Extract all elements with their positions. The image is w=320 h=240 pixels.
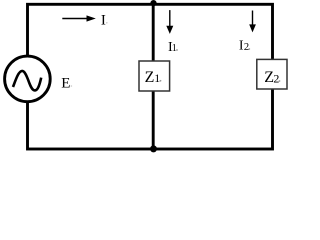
svg-text:I: I bbox=[101, 12, 106, 28]
svg-text:E: E bbox=[61, 76, 70, 92]
svg-text:1: 1 bbox=[154, 71, 160, 85]
svg-text:1: 1 bbox=[172, 43, 177, 54]
svg-text:2: 2 bbox=[244, 42, 249, 53]
svg-text:Z: Z bbox=[145, 69, 155, 86]
svg-text:2: 2 bbox=[273, 71, 279, 85]
